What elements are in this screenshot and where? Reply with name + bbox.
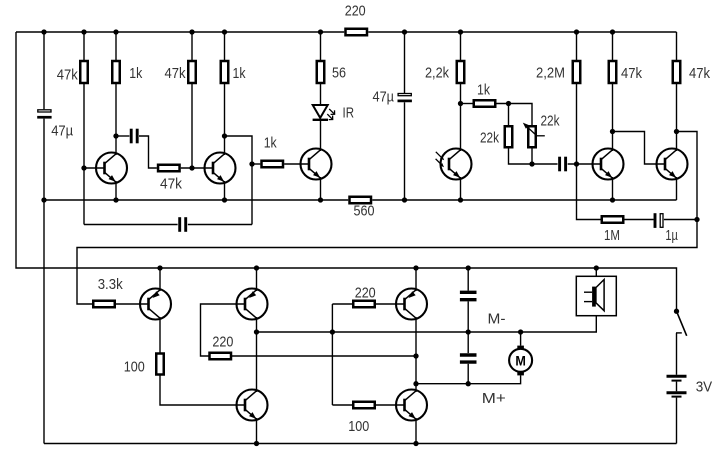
svg-text:3.3k: 3.3k — [98, 276, 123, 293]
junction: M- / motor — [518, 329, 523, 334]
resistor R4 1k — [221, 61, 229, 83]
wire: Q7 collector to R19 — [159, 317, 161, 353]
junction: common rail / Q2e — [222, 197, 227, 202]
transistor Q8 PNP — [237, 289, 268, 320]
wire: R11 to R13 top — [496, 104, 532, 126]
LED D1 IR emitter — [313, 105, 328, 118]
transistor Q1 — [96, 153, 127, 184]
resistor R9 560 — [350, 197, 372, 204]
wire: C6 to riser x697 — [664, 219, 697, 221]
wire: speaker top lead — [595, 268, 597, 276]
wire: R21 to Q10 base — [376, 303, 404, 305]
wire: C7 top lead — [467, 268, 469, 291]
resistor R22 100 — [353, 402, 375, 409]
wire: Q6 emitter — [676, 177, 678, 200]
wire: C1 top lead — [43, 32, 45, 109]
wire: Q3 emitter — [320, 177, 322, 200]
junction: lower rail / Q7e — [157, 265, 162, 270]
junction: Q6 collector node — [674, 129, 679, 134]
wire: Q7 emitter to lower rail — [159, 268, 161, 291]
wire: switch to battery — [676, 333, 678, 375]
wire: R10 column / Q4 collector — [460, 32, 462, 151]
capacitor C1 47µ — [38, 110, 51, 112]
wire: C8 top lead — [467, 332, 469, 353]
wire: Q10 emitter to lower rail — [415, 268, 417, 291]
wire: R7/LED column — [320, 32, 322, 105]
junction: Q2 collector node — [222, 133, 227, 138]
junction: top rail / R2 — [113, 29, 118, 34]
svg-text:47k: 47k — [160, 176, 182, 193]
wire: R3 column — [191, 32, 193, 168]
wire: Q11 emitter to ground rail — [415, 418, 417, 444]
junction: top rail / C4 — [402, 29, 407, 34]
junction: common rail / Q5e — [610, 197, 615, 202]
svg-text:M-: M- — [488, 311, 506, 328]
wire: R16 column / Q6 collector — [676, 32, 678, 151]
svg-text:1k: 1k — [477, 82, 490, 99]
junction: top rail / R14 — [574, 29, 579, 34]
wire: node to R11 — [461, 103, 473, 105]
svg-text:220: 220 — [355, 285, 376, 302]
junction: common rail / C4 — [402, 197, 407, 202]
resistor R20 220 — [210, 353, 232, 360]
svg-text:IR: IR — [343, 105, 355, 122]
wire: R12 bottom to node — [509, 149, 533, 165]
junction: top rail / R10 — [458, 29, 463, 34]
wire: C7 bottom lead — [467, 301, 469, 332]
svg-text:3V: 3V — [696, 379, 713, 396]
junction: R12/R13 bottom node — [529, 161, 534, 166]
capacitor C4 47µ — [398, 94, 411, 96]
junction: M+ / R20 — [413, 353, 418, 358]
wire: M- output line to speaker — [257, 316, 597, 332]
wire: Q1 emitter — [115, 181, 117, 200]
wire: Q1 base wire — [84, 167, 104, 169]
junction: Q5 collector node — [610, 129, 615, 134]
junction: top rail / C1 — [41, 29, 46, 34]
resistor R6 1k — [262, 161, 284, 168]
wire: upper common rail left segment — [44, 199, 348, 201]
wire: node to C5 — [532, 163, 558, 165]
wire: R14 node down to 1M row — [577, 164, 601, 220]
junction: ground rail / Q9e — [254, 441, 259, 446]
wire: Q2 emitter — [224, 181, 226, 200]
junction: common rail / Q4e — [458, 197, 463, 202]
wire: M+ line to motor — [416, 375, 521, 383]
svg-text:1k: 1k — [233, 65, 246, 82]
junction: R11/R12 node — [506, 101, 511, 106]
junction: M+ / motor return — [413, 381, 418, 386]
transistor Q2 — [205, 153, 236, 184]
wire: Q2 collector to coupling riser x252 — [225, 136, 253, 225]
svg-text:47k: 47k — [57, 67, 78, 84]
resistor R21 220 — [353, 301, 375, 308]
transistor Q3 — [301, 149, 332, 180]
transistor Q5 — [593, 149, 624, 180]
wire: Q5 collector to Q6 base — [613, 132, 665, 165]
capacitor C5 — [558, 157, 561, 172]
wire: R20 to M+ node — [232, 355, 416, 357]
resistor R19 100 — [156, 354, 164, 375]
junction: M- / Q8-Q9 — [254, 329, 259, 334]
trimmer R13 22k — [528, 126, 536, 147]
junction: lower rail / speaker — [594, 265, 599, 270]
capacitor C2 — [130, 129, 133, 144]
svg-text:56: 56 — [332, 65, 346, 82]
svg-text:1k: 1k — [129, 65, 142, 82]
svg-text:22k: 22k — [541, 113, 560, 130]
wire: Q4 emitter — [460, 177, 462, 200]
junction: Q5 base node — [574, 161, 579, 166]
wire: R12 top lead — [508, 104, 510, 126]
wire: R18 to Q7 base — [116, 303, 148, 305]
svg-text:47k: 47k — [165, 65, 186, 82]
wire: R4 column / Q2 collector — [224, 32, 226, 155]
junction: lower rail / Q8e — [254, 265, 259, 270]
svg-text:47µ: 47µ — [373, 88, 395, 105]
junction: Q3 base node — [249, 161, 254, 166]
svg-text:1µ: 1µ — [665, 227, 678, 244]
junction: ground rail / Q11e — [413, 441, 418, 446]
svg-text:M: M — [515, 352, 526, 368]
junction: M- / divider riser — [330, 329, 335, 334]
motor M1 — [509, 349, 532, 372]
junction: R10/R11 node — [458, 101, 463, 106]
resistor R2 1k — [112, 61, 120, 83]
resistor R10 2,2k — [457, 61, 465, 83]
capacitor C6 1µ — [654, 213, 657, 228]
resistor R3 47k — [188, 61, 196, 83]
wire: Q8 base wire to R20 — [201, 304, 245, 356]
wire: Q8 collector to output node — [256, 317, 258, 332]
svg-text:100: 100 — [348, 418, 369, 435]
junction: Q2 base node — [189, 165, 194, 170]
transistor Q4 phototransistor — [441, 149, 472, 180]
wire: base divider riser x332 — [331, 304, 333, 405]
wire: left supply loop / lower +V rail / switch feed — [16, 32, 677, 311]
junction: common rail / Q3e — [318, 197, 323, 202]
resistor R15 47k — [609, 61, 617, 83]
svg-text:220: 220 — [212, 334, 233, 351]
wire: R19 to Q9 base — [160, 376, 244, 406]
wire: C2 to R5 — [139, 136, 157, 168]
junction: top rail / R15 — [610, 29, 615, 34]
svg-text:100: 100 — [124, 359, 145, 376]
wire: top +V rail right segment — [368, 31, 676, 33]
transistor Q9 — [237, 390, 268, 421]
wire: R1 column / Q1 base column — [83, 32, 85, 225]
svg-text:2,2k: 2,2k — [425, 65, 449, 82]
resistor R16 47k — [673, 61, 681, 83]
resistor R11 1k — [474, 100, 496, 107]
junction: Q1 collector node — [113, 133, 118, 138]
junction: top rail / R3 — [189, 29, 194, 34]
wire: C8 bottom lead — [467, 364, 469, 384]
resistor R1 47k — [80, 61, 88, 83]
transistor Q10 PNP — [396, 289, 427, 320]
wire: bottom ground rail — [44, 443, 677, 445]
junction: top rail / R4 — [222, 29, 227, 34]
wire: Q5 emitter — [612, 177, 614, 200]
resistor R18 3.3k — [93, 301, 115, 308]
wire: C4 bottom lead — [404, 102, 406, 200]
capacitor C7 — [460, 291, 477, 294]
transistor Q11 — [396, 390, 427, 421]
svg-text:47µ: 47µ — [51, 123, 73, 140]
wire: C3 right plate to x252 riser — [188, 224, 252, 226]
wire: node B1 to C3 left plate — [84, 224, 178, 226]
wire: Q1 collector to C2 — [116, 135, 129, 137]
wire: node to R6 — [252, 163, 260, 165]
wire: battery cell link — [676, 382, 678, 392]
wire: C1 bottom lead down to ground rail — [43, 119, 45, 444]
svg-text:1k: 1k — [264, 135, 277, 152]
wire: Q9 emitter to ground rail — [256, 418, 258, 444]
transistor Q6 — [657, 149, 688, 180]
resistor R12 22k — [505, 126, 513, 147]
switch SW1 — [674, 309, 679, 314]
speaker LS1 — [576, 276, 616, 315]
wire: top +V rail left segment — [16, 31, 344, 33]
resistor R7 56 — [317, 61, 325, 83]
svg-text:560: 560 — [354, 203, 375, 220]
resistor R8 220 — [346, 29, 368, 36]
wire: R2 column / Q1 collector — [115, 32, 117, 155]
battery BT1 3V — [667, 375, 687, 378]
wire: C4 top lead — [404, 32, 406, 93]
junction: Q1 base node — [81, 165, 86, 170]
wire: R13 bottom lead — [531, 149, 533, 165]
junction: lower rail / Q10e — [413, 265, 418, 270]
wire: R14 column — [576, 32, 578, 164]
wire: R22 to Q11 base — [376, 404, 404, 406]
wire: R15 column / Q5 collector — [612, 32, 614, 151]
junction: common rail / Q1e — [113, 197, 118, 202]
junction: common rail / C1 — [41, 197, 46, 202]
junction: top rail / R7 — [318, 29, 323, 34]
svg-text:2,2M: 2,2M — [536, 65, 565, 82]
wire: C5 to Q5 base — [568, 163, 601, 165]
wire: upper common rail right segment — [372, 199, 676, 201]
resistor R5 47k — [158, 165, 180, 172]
svg-text:47k: 47k — [621, 65, 642, 82]
wire: R17 to C6 — [624, 219, 653, 221]
transistor Q7 PNP — [140, 289, 171, 320]
wire: Q9 collector — [256, 332, 258, 392]
wire: LED cathode to Q3 collector — [320, 120, 322, 152]
wire: Q8 emitter to lower rail — [256, 268, 258, 291]
svg-text:M+: M+ — [482, 390, 506, 407]
wire: riser to R22 — [332, 404, 352, 406]
wire: riser to R21 — [332, 303, 352, 305]
svg-text:47k: 47k — [689, 65, 710, 82]
wire: battery to ground rail — [676, 398, 678, 444]
junction: M- / C8 — [466, 329, 471, 334]
svg-text:220: 220 — [345, 3, 366, 20]
capacitor C3 — [178, 217, 181, 232]
wire: R5 to Q2 base — [181, 167, 212, 169]
resistor R14 2,2M — [573, 61, 581, 83]
capacitor C8 — [460, 353, 477, 356]
junction: top rail / R1 — [81, 29, 86, 34]
wire: motor top lead — [520, 332, 522, 346]
junction: lower rail / C7 — [466, 265, 471, 270]
junction: M+ / C8 bottom — [466, 381, 471, 386]
wire: Q6 collector to lower section input — [77, 132, 697, 305]
svg-text:22k: 22k — [480, 130, 499, 147]
wire: Q10 collector / Q11 collector junction — [415, 317, 417, 392]
svg-text:1M: 1M — [604, 227, 620, 244]
resistor R17 1M — [602, 216, 624, 223]
junction: 1µ output node — [694, 217, 699, 222]
wire: R6 to Q3 base — [284, 163, 308, 165]
